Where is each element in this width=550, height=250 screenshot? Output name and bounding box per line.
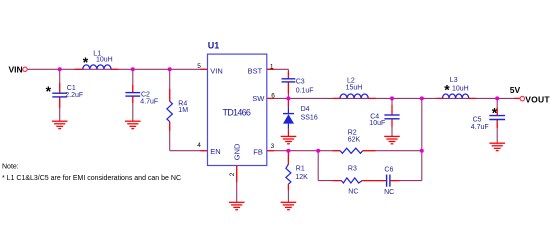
diode D4: [283, 107, 294, 129]
svg-text:*: *: [492, 105, 498, 121]
svg-text:C5: C5: [473, 116, 482, 123]
svg-text:4.7uF: 4.7uF: [471, 124, 489, 131]
wire GND pin to ground: [236, 166, 238, 203]
svg-text:BST: BST: [248, 67, 263, 76]
svg-text:L3: L3: [450, 77, 458, 84]
svg-text:1M: 1M: [178, 107, 188, 114]
ground R1: [281, 202, 297, 209]
svg-text:*: *: [46, 83, 52, 99]
svg-text:D4: D4: [301, 106, 310, 113]
R2 leads: [333, 150, 341, 152]
svg-text:VIN: VIN: [210, 67, 223, 76]
inductor L3: [443, 94, 469, 98]
L1 leads: [75, 68, 83, 70]
node R2/C6 right junction: [420, 149, 424, 153]
svg-text:6: 6: [271, 92, 275, 99]
capacitor C6 (horizontal): [387, 175, 390, 187]
C3 leads: [287, 72, 289, 79]
wire D4 top lead: [287, 98, 289, 107]
L3 leads: [437, 97, 443, 99]
resistor R2: [340, 148, 363, 153]
resistor R3: [341, 178, 362, 183]
svg-text:SS16: SS16: [301, 114, 318, 121]
node VIN/C1 junction: [58, 67, 62, 71]
svg-text:0.1uF: 0.1uF: [296, 87, 314, 94]
svg-text:NC: NC: [348, 188, 358, 195]
svg-text:10uF: 10uF: [369, 120, 385, 127]
wire feedback tap vertical: [421, 98, 423, 180]
svg-text:1: 1: [270, 63, 274, 70]
ground C4: [384, 136, 400, 143]
svg-text:FB: FB: [253, 148, 263, 157]
wire C4 leads vertical: [391, 98, 393, 115]
pin 4 stub: [200, 150, 207, 152]
svg-text:VIN: VIN: [9, 64, 23, 74]
svg-text:4: 4: [197, 142, 201, 149]
D4 leads: [287, 98, 289, 107]
node C5 junction: [495, 96, 499, 100]
wire VIN rail top: [28, 68, 208, 70]
svg-text:TD1466: TD1466: [223, 108, 251, 118]
capacitor C2: [125, 93, 140, 97]
svg-text:C1: C1: [67, 85, 76, 92]
node FB/R1 junction: [286, 149, 290, 153]
wire R1 leads vertical: [287, 151, 289, 165]
capacitor C5: [489, 116, 505, 120]
R3 leads: [333, 180, 342, 182]
R4 leads: [169, 89, 171, 101]
svg-text:C3: C3: [296, 79, 305, 86]
wire C5 leads vertical: [496, 98, 498, 115]
ground C1: [52, 121, 68, 128]
resistor R1: [286, 164, 291, 184]
node FB tap junction: [420, 96, 424, 100]
ground C2: [125, 121, 141, 128]
pin 6 stub: [267, 97, 274, 99]
node C4 junction: [390, 96, 394, 100]
wire C3 bottom to SW node: [287, 82, 289, 99]
svg-text:2: 2: [229, 172, 236, 176]
inductor L2: [340, 94, 368, 98]
svg-text:62K: 62K: [348, 137, 361, 144]
svg-text:15uH: 15uH: [346, 85, 363, 92]
svg-text:3: 3: [271, 143, 275, 150]
pin 5 stub: [200, 68, 207, 70]
svg-text:2.2uF: 2.2uF: [65, 92, 83, 99]
capacitor C3: [282, 79, 296, 82]
op-amp U1 TD1466 box: [208, 54, 267, 165]
pin 1 stub: [267, 68, 274, 70]
ground C5: [489, 143, 505, 150]
VIN terminal: [23, 67, 27, 71]
wire lower branch R3 C6: [317, 151, 319, 181]
VOUT stub: [514, 97, 520, 99]
C5 leads: [496, 108, 498, 116]
svg-text:EN: EN: [210, 147, 220, 156]
svg-text:R1: R1: [296, 166, 305, 173]
svg-text:Note:: Note:: [2, 163, 19, 170]
svg-text:NC: NC: [384, 189, 394, 196]
svg-text:R2: R2: [348, 130, 357, 137]
svg-text:C6: C6: [384, 166, 393, 173]
node R3 branch junction: [316, 149, 320, 153]
ground D4: [281, 136, 297, 143]
wire C1 leads vertical: [59, 69, 61, 93]
node C2 junction: [131, 67, 135, 71]
ground GND pin: [229, 202, 245, 209]
resistor R4: [167, 101, 173, 121]
svg-text:12K: 12K: [295, 174, 308, 181]
wire SW rail: [267, 97, 520, 99]
C2 leads: [132, 85, 134, 93]
svg-text:U1: U1: [208, 40, 220, 50]
wire C2 leads vertical: [132, 69, 134, 92]
svg-text:SW: SW: [252, 94, 265, 103]
svg-text:*: *: [83, 54, 89, 70]
node SW/C3/D4 junction: [286, 96, 290, 100]
svg-text:4.7uF: 4.7uF: [140, 98, 158, 105]
C6 leads: [375, 180, 386, 182]
C4 leads: [391, 105, 393, 115]
R1 leads: [287, 153, 289, 165]
inductor L1: [83, 65, 111, 69]
svg-text:GND: GND: [233, 143, 242, 160]
wire R4 branch to EN: [169, 69, 171, 101]
svg-text:VOUT: VOUT: [525, 94, 550, 104]
wire FB row: [267, 150, 340, 152]
C1 leads: [59, 83, 61, 93]
svg-text:10uH: 10uH: [96, 57, 113, 64]
capacitor C4: [384, 115, 399, 119]
svg-text:5: 5: [197, 63, 201, 70]
node R4 junction: [168, 67, 172, 71]
wire BST to C3: [267, 68, 289, 70]
pin 3 stub: [267, 150, 274, 152]
L2 leads: [333, 97, 340, 99]
svg-text:5V: 5V: [510, 85, 521, 95]
capacitor C1: [52, 93, 67, 97]
svg-text:*: *: [444, 82, 450, 98]
svg-text:* L1 C1&L3/C5 are for EMI cons: * L1 C1&L3/C5 are for EMI considerations…: [2, 175, 181, 182]
svg-text:R3: R3: [348, 166, 357, 173]
svg-text:L2: L2: [347, 78, 355, 85]
svg-text:10uH: 10uH: [452, 85, 469, 92]
VOUT terminal: [520, 96, 524, 100]
pin 2 stub: [236, 166, 238, 183]
